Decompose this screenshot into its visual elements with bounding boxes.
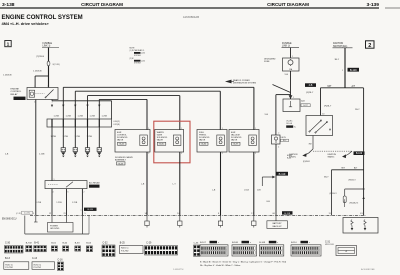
svg-text:B-61: B-61	[51, 242, 56, 244]
svg-text:5: 5	[85, 213, 86, 215]
svg-text:DISTRIBUTION SYSTEM: DISTRIBUTION SYSTEM	[233, 83, 256, 85]
svg-text:A-B: A-B	[301, 99, 305, 102]
svg-text:NOTE: NOTE	[130, 47, 136, 49]
svg-text:B-110: B-110	[291, 242, 297, 244]
svg-text:B-119: B-119	[356, 152, 363, 155]
svg-text:LINK ②: LINK ②	[43, 45, 51, 48]
svg-text:1.25B: 1.25B	[66, 116, 72, 118]
svg-text:1: 1	[181, 128, 182, 130]
svg-text:B-13: B-13	[5, 258, 11, 260]
svg-text:ENGINE-ECU: ENGINE-ECU	[2, 218, 17, 220]
svg-text:B-119: B-119	[350, 68, 357, 72]
svg-text:IGNITION: IGNITION	[333, 43, 344, 45]
svg-text:UECN: UECN	[281, 137, 287, 139]
svg-text:LINK ③: LINK ③	[282, 45, 290, 48]
svg-text:B-64: B-64	[86, 242, 91, 244]
svg-text:C-29: C-29	[146, 242, 152, 244]
svg-text:P.3-7N2: P.3-7N2	[121, 250, 129, 252]
svg-text:P.3-7N2: P.3-7N2	[34, 267, 42, 269]
svg-text:X-B: X-B	[265, 114, 269, 116]
svg-text:3B-Y: 3B-Y	[324, 176, 329, 178]
svg-text:2(C-35): 2(C-35)	[53, 64, 60, 66]
svg-text:(F)1B-Y: (F)1B-Y	[349, 179, 357, 181]
svg-text:1.25B: 1.25B	[56, 202, 62, 204]
svg-text:2: 2	[148, 153, 149, 155]
svg-text:C-30: C-30	[5, 242, 11, 244]
svg-text:A/C RELAY: A/C RELAY	[89, 181, 100, 184]
svg-text:2: 2	[278, 133, 279, 135]
svg-text:B : Black Br : Brown G :: B : Black Br : Brown G : Green Gr : Gray…	[200, 261, 287, 264]
svg-text:2-MFWTM: 2-MFWTM	[173, 269, 184, 271]
svg-text:1: 1	[222, 128, 223, 130]
svg-text:1.25W-B: 1.25W-B	[3, 74, 12, 76]
svg-text:4M4 «L.H. drive vehicles»: 4M4 «L.H. drive vehicles»	[2, 21, 49, 26]
svg-text:3W: 3W	[309, 143, 312, 145]
svg-text:1: 1	[292, 56, 293, 58]
svg-text:Refer to: Refer to	[34, 263, 42, 266]
svg-text:1.25B: 1.25B	[39, 154, 45, 156]
svg-text:SW(ST): SW(ST)	[328, 156, 335, 158]
svg-text:B-63: B-63	[75, 242, 80, 244]
svg-text:VALVE: VALVE	[231, 138, 238, 141]
svg-text:1.25B: 1.25B	[78, 116, 84, 118]
svg-text:C-13: C-13	[32, 258, 38, 260]
svg-text:DEDICATED: DEDICATED	[264, 57, 276, 60]
svg-text:2: 2	[34, 86, 35, 88]
svg-text:4: 4	[53, 192, 54, 194]
svg-text:B-119: B-119	[279, 172, 286, 176]
svg-text:SOLENOID VALVE: SOLENOID VALVE	[115, 156, 133, 159]
svg-text:1.25W-B: 1.25W-B	[33, 71, 42, 73]
svg-text:M/T: M/T	[328, 86, 333, 88]
svg-text:C-32: C-32	[103, 242, 109, 244]
svg-text:LG-B: LG-B	[244, 189, 249, 191]
svg-text:Sb : Sky blue V : Violet: Sb : Sky blue V : Violet W : White Y : Y…	[200, 264, 241, 267]
svg-text:●: ●	[218, 242, 219, 244]
svg-text:DR-CA: DR-CA	[286, 122, 292, 125]
svg-text:B-70X: B-70X	[26, 242, 33, 244]
svg-text:Refer to: Refer to	[5, 263, 13, 266]
svg-text:10: 10	[322, 113, 324, 115]
svg-text:2: 2	[84, 192, 85, 194]
svg-text:SW(ST): SW(ST)	[289, 156, 296, 158]
svg-text:ENGINE: ENGINE	[11, 88, 20, 90]
svg-text:(F)1B-Y: (F)1B-Y	[330, 193, 338, 195]
svg-text:●: ●	[277, 242, 278, 244]
svg-text:2: 2	[222, 153, 223, 155]
svg-text:B-119: B-119	[284, 213, 290, 215]
svg-text:1: 1	[7, 42, 10, 48]
svg-text:x: x	[81, 209, 82, 211]
svg-text:ASSEMBLY: ASSEMBLY	[115, 158, 127, 161]
svg-text:(2) W: (2) W	[130, 58, 134, 60]
svg-text:C-33: C-33	[194, 242, 200, 244]
svg-text:1: 1	[293, 97, 294, 99]
svg-text:2: 2	[255, 153, 256, 155]
svg-text:C-16: C-16	[58, 259, 64, 261]
svg-text:CIRCUIT DIAGRAM: CIRCUIT DIAGRAM	[267, 2, 309, 7]
svg-text:FUSIBLE: FUSIBLE	[282, 43, 292, 45]
svg-text:A: A	[345, 249, 347, 253]
svg-text:GROUND: GROUND	[50, 228, 60, 230]
svg-text:3-139: 3-139	[366, 2, 379, 8]
svg-text:VALVE: VALVE	[199, 138, 206, 141]
svg-text:AC608B27AB: AC608B27AB	[361, 268, 375, 271]
svg-text:1: 1	[148, 128, 149, 130]
svg-text:BACK-UP: BACK-UP	[273, 225, 283, 228]
svg-text:1: 1	[342, 70, 343, 72]
svg-text:(C-35): (C-35)	[16, 213, 22, 215]
svg-text:B-25: B-25	[120, 242, 126, 244]
svg-text:X-B: X-B	[285, 74, 289, 76]
svg-text:(F)2B-Y: (F)2B-Y	[324, 106, 332, 108]
svg-text:Refer to: Refer to	[121, 247, 129, 250]
svg-text:C-35(8): C-35(8)	[113, 124, 120, 126]
svg-text:CONTROL: CONTROL	[11, 91, 22, 93]
svg-text:SYSTEM: SYSTEM	[134, 62, 141, 64]
svg-text:B-109: B-109	[259, 242, 266, 244]
svg-text:5: 5	[48, 86, 49, 88]
svg-text:2B-Y: 2B-Y	[355, 109, 360, 111]
svg-text:1: 1	[255, 128, 256, 130]
svg-text:4: 4	[34, 102, 35, 104]
svg-text:B-107: B-107	[200, 242, 207, 244]
svg-text:(C-135): (C-135)	[24, 213, 30, 215]
svg-text:4-B: 4-B	[309, 84, 313, 87]
svg-text:1.25B: 1.25B	[102, 116, 108, 118]
svg-text:VALVE: VALVE	[117, 138, 124, 141]
svg-text:B-108: B-108	[232, 242, 239, 244]
svg-text:1.25B: 1.25B	[51, 136, 57, 138]
svg-text:REAR CL POWER: REAR CL POWER	[233, 79, 250, 82]
svg-text:1.25B: 1.25B	[36, 202, 42, 204]
svg-text:23: 23	[64, 213, 66, 215]
svg-text:1: 1	[52, 102, 53, 104]
svg-text:SYSTEM: SYSTEM	[134, 55, 141, 57]
svg-text:(-130: (-130	[141, 53, 145, 55]
svg-text:(F)2B-Y: (F)2B-Y	[306, 92, 314, 94]
svg-text:A16X0804AB: A16X0804AB	[183, 15, 199, 19]
svg-text:(-130: (-130	[141, 60, 145, 62]
svg-text:MB991348: MB991348	[325, 244, 334, 246]
svg-text:3-138: 3-138	[2, 2, 15, 8]
svg-text:POWER: POWER	[50, 225, 58, 227]
svg-text:(7)2W-B: (7)2W-B	[36, 56, 45, 58]
svg-text:CIRCUIT DIAGRAM: CIRCUIT DIAGRAM	[81, 2, 123, 7]
svg-text:3B-Y: 3B-Y	[335, 59, 340, 61]
svg-text:●: ●	[309, 242, 310, 244]
svg-text:1.25B: 1.25B	[90, 116, 96, 118]
svg-text:2: 2	[181, 153, 182, 155]
svg-text:1.25B: 1.25B	[54, 116, 60, 118]
svg-text:(F)(2B-Y): (F)(2B-Y)	[350, 203, 359, 205]
svg-text:B-127: B-127	[303, 105, 308, 107]
svg-text:FUSE: FUSE	[264, 61, 270, 63]
svg-text:BATTERY: BATTERY	[273, 222, 283, 225]
svg-text:B-119: B-119	[88, 209, 94, 211]
svg-text:P.3-7N2: P.3-7N2	[5, 267, 13, 269]
svg-text:VALVE: VALVE	[157, 138, 164, 141]
svg-text:2: 2	[368, 43, 371, 49]
svg-text:FUSIBLE: FUSIBLE	[43, 43, 53, 45]
svg-text:12: 12	[49, 213, 51, 215]
svg-text:6: 6	[68, 192, 69, 194]
svg-text:A/T: A/T	[352, 85, 356, 88]
svg-text:1.25B: 1.25B	[72, 202, 78, 204]
svg-text:●: ●	[250, 242, 251, 244]
svg-text:B-41: B-41	[34, 242, 40, 244]
svg-text:(F)2B-R: (F)2B-R	[303, 161, 310, 163]
svg-text:RELAY: RELAY	[11, 93, 19, 96]
svg-text:B-62: B-62	[63, 242, 68, 244]
svg-text:4: 4	[278, 147, 279, 149]
